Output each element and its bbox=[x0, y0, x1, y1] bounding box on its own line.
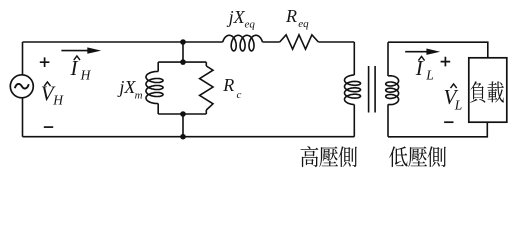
plus sign L-side bbox=[441, 57, 451, 67]
current arrow I_L bbox=[405, 49, 440, 55]
svg-text:eq: eq bbox=[245, 19, 256, 31]
label I_L bbox=[415, 56, 434, 82]
svg-text:H: H bbox=[52, 93, 64, 108]
label load (Chinese) in box bbox=[470, 81, 504, 102]
plus sign H-side bbox=[40, 57, 50, 67]
wire left vertical source branch bbox=[22, 42, 24, 137]
label R_eq bbox=[285, 6, 309, 30]
resistor Rc zigzag bbox=[200, 66, 213, 110]
ac source Vs circle bbox=[10, 75, 33, 98]
wire shunt top stub bbox=[182, 42, 184, 62]
label low-voltage side (Chinese) bbox=[389, 146, 446, 167]
label I_H bbox=[70, 56, 92, 82]
inductor Xm coil bbox=[146, 72, 163, 104]
wire parallel top rail bbox=[158, 61, 206, 63]
wire Xm stubs bbox=[157, 62, 159, 114]
label jX_m bbox=[117, 77, 142, 101]
svg-text:jX: jX bbox=[227, 7, 246, 27]
wire secondary winding stubs bbox=[387, 42, 389, 137]
svg-text:c: c bbox=[237, 89, 242, 101]
transformer core bbox=[369, 66, 376, 113]
label high-voltage side (Chinese) bbox=[301, 146, 358, 167]
wire shunt bottom stub bbox=[182, 114, 184, 137]
svg-text:R: R bbox=[285, 6, 297, 26]
svg-text:R: R bbox=[222, 75, 234, 95]
node dot parallel top bbox=[180, 59, 186, 65]
svg-text:jX: jX bbox=[117, 77, 136, 97]
wire bottom rail H-side bbox=[23, 136, 355, 138]
transformer secondary winding bbox=[386, 76, 399, 105]
wire top rail L-side bbox=[388, 42, 488, 58]
svg-text:m: m bbox=[135, 89, 143, 101]
load box bbox=[469, 58, 507, 122]
wire bottom rail L-side bbox=[388, 122, 487, 137]
current arrow I_H bbox=[61, 47, 101, 53]
wire top rail H-side bbox=[23, 41, 355, 43]
transformer primary winding bbox=[345, 75, 361, 105]
minus sign H-side bbox=[44, 126, 53, 128]
inductor X_eq coil bbox=[223, 35, 263, 51]
label V_L bbox=[444, 84, 463, 112]
wire primary winding stubs bbox=[353, 42, 355, 137]
node dot top rail bbox=[180, 39, 186, 45]
label R_c bbox=[222, 75, 241, 101]
resistor R_eq zigzag bbox=[280, 35, 319, 49]
svg-text:H: H bbox=[80, 67, 92, 82]
svg-text:L: L bbox=[425, 68, 434, 83]
ac source sine symbol bbox=[15, 84, 29, 89]
wire parallel bottom rail bbox=[158, 113, 206, 115]
minus sign L-side bbox=[444, 121, 453, 123]
svg-text:L: L bbox=[454, 97, 463, 112]
label jX_eq bbox=[227, 7, 256, 31]
label V_H bbox=[41, 81, 65, 107]
svg-text:eq: eq bbox=[298, 18, 309, 30]
node dot parallel bottom bbox=[180, 111, 186, 117]
node dot bottom rail bbox=[180, 134, 186, 140]
wire Rc stubs bbox=[205, 62, 207, 114]
